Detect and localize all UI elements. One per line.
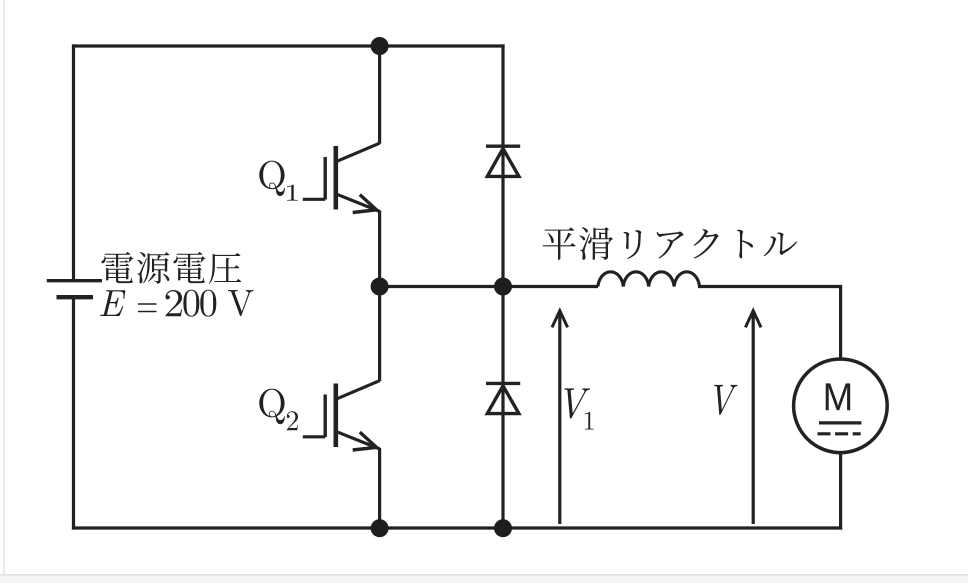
arrow V shaft [752,312,755,525]
transistor Q2: emitter lead [378,448,381,528]
node A: mid junction at Q1/Q2 [371,278,389,296]
node: bottom junction at diode branch [494,519,512,537]
label 電源電圧 (source voltage) [101,252,241,284]
wire: left rail lower (battery - to bottom-left corner) [72,300,75,529]
wire: mid rail between node A and node B [380,285,503,288]
label E = 200 V [100,290,253,317]
transistor Q2: gate lead [303,435,325,438]
diode D2 triangle [487,386,519,414]
transistor Q1: emitter arrowhead [353,195,377,213]
motor M dashed underline [818,432,861,435]
transistor Q1: gate bar [324,157,327,200]
label 平滑リアクトル (smoothing reactor) [543,227,797,260]
transistor Q2: collector diagonal [337,381,380,399]
wire: diode branch lower (mid node down to bottom rail) [501,287,504,529]
wire: bottom rail [74,526,841,529]
wire: top rail [74,44,504,47]
transistor Q2: gate bar [324,395,327,438]
transistor Q1: emitter diagonal [337,194,380,211]
transistor Q2: emitter arrowhead [353,432,377,450]
diode D1 cathode bar [486,144,520,147]
transistor Q2: body bar [333,384,338,448]
transistor Q1: body bar [333,146,338,210]
wire: left rail upper (battery + to top-left corner) [72,46,75,279]
node: top junction (Q1 collector / top rail) [371,37,389,55]
transistor Q2: emitter diagonal [337,432,380,449]
label V [714,385,737,415]
label Q2 [259,389,298,431]
node: bottom junction at Q2 emitter [371,519,389,537]
motor M solid underline [819,421,861,424]
diode D2 cathode bar [486,382,520,385]
transistor Q1: emitter lead [378,211,381,287]
transistor Q1: collector diagonal [337,143,380,161]
battery E positive plate (long) [47,279,102,282]
wire: motor lower lead to bottom rail [839,453,842,528]
arrow V1 shaft [558,312,561,525]
wire: mid rail from reactor to motor branch corner [700,287,841,360]
inductor: smoothing reactor coil (4 humps) [598,272,700,287]
wire: diode branch upper (top rail corner down to mid node) [501,46,504,287]
motor M circle [794,359,888,453]
transistor Q1: collector lead [378,46,381,144]
label M (motor) [826,383,851,410]
page scan edge left (decorative) [3,0,5,583]
transistor Q2: collector lead [378,287,381,382]
diode D1 triangle [487,149,519,177]
label Q1 [259,161,298,201]
arrow V1 head [552,311,568,328]
label V1 [565,388,594,429]
wire: mid rail from node B to reactor [503,285,598,288]
node B: mid junction at diode branch [494,278,512,296]
battery E negative plate (short) [57,295,94,299]
arrow V head [745,311,761,328]
transistor Q1: gate lead [303,198,325,201]
page scan edge bottom (decorative) [0,574,968,576]
